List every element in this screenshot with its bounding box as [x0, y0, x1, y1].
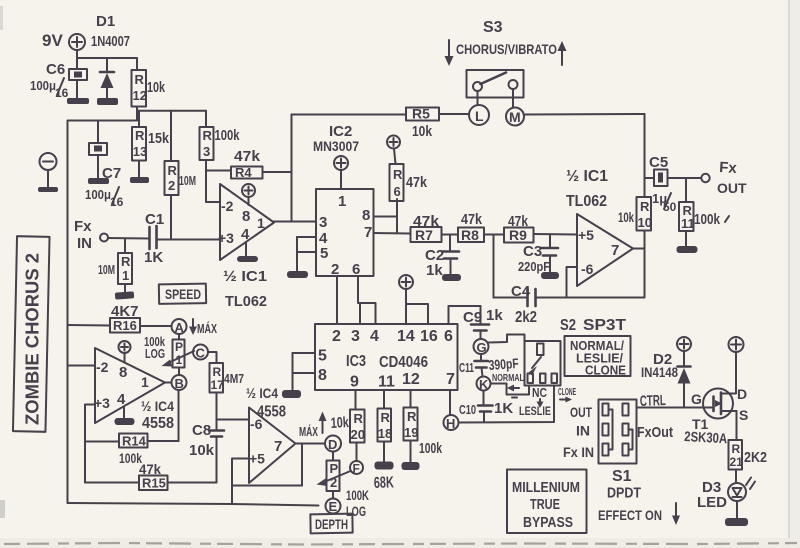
node L: [469, 91, 489, 125]
label 1/2 IC1: [223, 268, 267, 285]
svg-text:R8: R8: [461, 227, 479, 243]
wire IC3 pin6 to C9: [449, 306, 481, 324]
svg-text:OUT: OUT: [717, 180, 747, 196]
svg-text:220pF: 220pF: [518, 259, 550, 274]
svg-text:CLONE: CLONE: [585, 363, 626, 378]
svg-text:G: G: [477, 340, 487, 355]
op-amp IC4b: [249, 408, 296, 484]
svg-text:4: 4: [241, 226, 250, 243]
svg-text:10k: 10k: [330, 414, 349, 432]
svg-text:+3: +3: [218, 230, 234, 246]
svg-text:TL062: TL062: [225, 293, 267, 310]
label 100k R19: [419, 440, 442, 457]
svg-text:C4: C4: [511, 283, 531, 300]
wire IC4b feedback: [232, 444, 302, 486]
svg-text:R9: R9: [509, 227, 527, 243]
label 15k R13: [148, 130, 170, 147]
label Fx IN S1: [563, 444, 594, 460]
wire IC2 pin8: [374, 216, 398, 218]
left vertical bus: [67, 121, 69, 504]
capacitor C4: [528, 289, 536, 306]
label IC2: [329, 123, 352, 140]
svg-text:Fx: Fx: [719, 159, 738, 177]
label FxOUT: [637, 424, 673, 441]
ground C3: [541, 272, 559, 279]
power IC3: [399, 275, 428, 324]
svg-text:TL062: TL062: [566, 193, 607, 210]
svg-text:9: 9: [350, 374, 359, 391]
capacitor C1: [150, 226, 220, 249]
IC3 pins 5,8 ground bracket: [282, 353, 315, 398]
svg-text:8: 8: [362, 207, 370, 224]
wire R17 to IC4b -6: [217, 419, 250, 421]
power IC1a: [242, 184, 255, 205]
label CLONE small: [558, 387, 576, 403]
label 1N4007: [91, 33, 130, 50]
svg-text:2: 2: [331, 261, 339, 278]
svg-text:100k: 100k: [419, 440, 442, 457]
svg-text:1K: 1K: [494, 400, 513, 417]
capacitor C5: [645, 170, 702, 187]
label TL062 b: [566, 193, 607, 210]
svg-text:2k2: 2k2: [515, 309, 537, 326]
label TL062: [225, 293, 267, 310]
resistor R13: [132, 111, 147, 178]
svg-text:7: 7: [274, 438, 282, 455]
resistor R5: [406, 106, 469, 122]
wire IC4a +3: [85, 405, 95, 483]
svg-text:IN4148: IN4148: [641, 364, 678, 380]
arrow max speed: [189, 319, 197, 335]
svg-text:MÁX: MÁX: [197, 321, 217, 336]
svg-text:Fx: Fx: [74, 218, 92, 235]
svg-text:6: 6: [352, 261, 360, 278]
diode D1: [100, 72, 114, 99]
output vertical bus: [644, 114, 646, 298]
svg-text:-2: -2: [221, 198, 234, 214]
svg-text:10k: 10k: [618, 209, 634, 225]
svg-text:IN: IN: [576, 423, 590, 439]
label 1/2 IC4 b: [246, 385, 278, 401]
svg-text:4558: 4558: [142, 415, 174, 432]
ground C7: [88, 178, 109, 184]
label 10k R20: [330, 414, 349, 432]
node E: [326, 499, 341, 515]
label 100u/16 C7: [85, 187, 124, 209]
svg-text:A: A: [175, 320, 185, 335]
svg-text:1: 1: [122, 268, 129, 283]
resistor R21: [729, 440, 744, 483]
svg-text:DEPTH: DEPTH: [315, 516, 348, 532]
svg-text:100K: 100K: [346, 487, 369, 503]
svg-text:1N4007: 1N4007: [91, 33, 130, 50]
svg-text:6: 6: [444, 328, 453, 345]
svg-text:7: 7: [364, 224, 372, 241]
node M: [506, 89, 524, 126]
svg-text:B: B: [175, 376, 184, 391]
power T1 drain: [729, 337, 744, 394]
label LED: [697, 494, 727, 511]
label 100k LOG P1: [144, 334, 166, 361]
label 390pF: [488, 355, 519, 373]
svg-text:MN3007: MN3007: [313, 138, 359, 154]
label G: [691, 391, 702, 407]
svg-text:12: 12: [133, 88, 147, 103]
label MAX depth: [299, 424, 318, 439]
node F: [350, 461, 363, 476]
label 1u/50 C5: [652, 191, 677, 214]
label EFFECT ON: [598, 503, 680, 525]
svg-text:D1: D1: [96, 13, 115, 30]
svg-text:C3: C3: [523, 243, 542, 260]
svg-text:S: S: [739, 407, 748, 423]
arrow normal position: [507, 385, 519, 398]
wire IC4a out to B: [165, 382, 172, 384]
svg-text:16: 16: [420, 328, 438, 345]
label 47k R9: [508, 213, 529, 230]
label C2: [425, 247, 444, 264]
label 1k C9: [486, 307, 503, 324]
label 2SK30A: [684, 428, 728, 446]
svg-text:OUT: OUT: [570, 404, 592, 420]
svg-text:R: R: [213, 365, 222, 379]
svg-text:390pF: 390pF: [488, 355, 519, 373]
label 10k R5: [412, 123, 433, 140]
resistor R20: [350, 390, 365, 461]
node K: [477, 377, 491, 393]
svg-text:2: 2: [332, 328, 341, 345]
svg-text:NORMAL: NORMAL: [492, 373, 524, 384]
potentiometer P2: [327, 452, 340, 499]
bottom bus: [68, 503, 319, 506]
label LESLIE: [519, 404, 551, 418]
label 10k R10: [618, 209, 634, 225]
wire IC4b out to D: [296, 443, 326, 445]
svg-text:20: 20: [351, 427, 365, 442]
svg-text:FxOut: FxOut: [637, 424, 673, 441]
svg-text:16: 16: [55, 86, 69, 100]
wire IC2 pin2 to IC3 pin2: [336, 276, 338, 324]
svg-text:C1: C1: [145, 211, 164, 228]
capacitor C3: [541, 235, 558, 273]
svg-text:10k: 10k: [189, 442, 215, 459]
svg-text:R14: R14: [122, 434, 147, 449]
label Fx IN: [74, 218, 92, 252]
svg-text:1k: 1k: [426, 262, 443, 279]
label IN S1: [576, 423, 590, 439]
svg-text:IN: IN: [77, 235, 92, 252]
svg-text:-6: -6: [581, 261, 594, 277]
svg-text:6: 6: [394, 184, 401, 199]
label MAX speed: [197, 321, 217, 336]
svg-text:LESLIE: LESLIE: [519, 404, 551, 418]
svg-text:2: 2: [168, 178, 175, 193]
label 1K C1: [144, 249, 163, 266]
label 47k R8: [461, 211, 483, 228]
svg-text:1K: 1K: [144, 249, 163, 266]
label 47k R6: [406, 174, 428, 191]
label CHORUS/VIBRATO: [456, 41, 557, 57]
power IC2: [334, 156, 348, 189]
svg-text:14: 14: [397, 328, 415, 345]
resistor R19: [404, 390, 419, 463]
svg-text:LOG: LOG: [346, 503, 366, 519]
svg-text:R: R: [135, 128, 145, 143]
svg-text:P: P: [175, 340, 183, 354]
power R6: [387, 136, 400, 165]
label 100K LOG P2: [346, 487, 369, 519]
svg-text:R: R: [203, 128, 213, 143]
label 100k R3: [215, 127, 240, 144]
svg-text:100μ: 100μ: [30, 78, 56, 93]
wire battery to rail: [77, 50, 137, 58]
ground IC1a pin4: [237, 242, 258, 262]
svg-text:LOG: LOG: [145, 346, 165, 361]
svg-text:H: H: [446, 416, 455, 431]
wire IC2 pin7 to R7: [374, 232, 411, 235]
label S2 SP3T: [560, 317, 626, 334]
label DEPTH box: [310, 514, 352, 534]
label 10k C8: [189, 442, 215, 459]
resistor R14: [85, 434, 179, 449]
wire -6 feedback: [567, 267, 578, 298]
bias blob R1: [115, 291, 134, 299]
wire IC2 pin6 to IC3 pins 3,4: [358, 276, 376, 324]
svg-text:1: 1: [257, 215, 265, 231]
svg-text:15k: 15k: [148, 130, 170, 147]
label S3: [483, 19, 503, 36]
svg-text:9V: 9V: [42, 31, 63, 50]
rail upper: [137, 110, 206, 112]
ground R19: [402, 462, 420, 470]
op-amp IC4a: [94, 348, 165, 423]
svg-text:4: 4: [117, 391, 126, 408]
resistor R17: [210, 363, 225, 420]
wire IC4a -2 to bus: [68, 365, 96, 367]
svg-text:R5: R5: [412, 106, 430, 122]
power D2: [677, 337, 691, 366]
wire CTRL: [637, 407, 708, 409]
resistor R10: [637, 197, 652, 231]
svg-text:17: 17: [211, 378, 225, 392]
label CTRL: [640, 392, 667, 410]
svg-text:IC3: IC3: [346, 353, 366, 370]
svg-text:BYPASS: BYPASS: [523, 514, 573, 531]
label S: [739, 407, 748, 423]
wire B to R14: [178, 390, 180, 441]
ground R11: [677, 246, 698, 253]
label C5: [649, 154, 668, 171]
IC2 MN3007 body: [316, 189, 374, 278]
wire rail stub to D1: [106, 58, 108, 71]
arrow down S3: [445, 40, 454, 66]
svg-text:CD4046: CD4046: [379, 354, 428, 371]
label C11: [459, 360, 474, 375]
box NORMAL/LESLIE/CLONE: [565, 336, 631, 378]
resistor R9: [504, 227, 577, 243]
wire R4 node to R5 rail: [291, 115, 293, 222]
9V label: [42, 31, 63, 50]
resistor R11: [679, 178, 695, 247]
svg-text:M: M: [509, 109, 521, 125]
op-amp IC1a: [218, 184, 274, 260]
ground R13: [130, 177, 149, 183]
label IN4148: [641, 364, 678, 380]
resistor R12: [132, 58, 147, 121]
svg-text:C10: C10: [459, 402, 476, 417]
arrow up S3: [558, 41, 567, 65]
label C1: [145, 211, 164, 228]
resistor R3: [200, 111, 220, 202]
svg-text:12: 12: [402, 371, 420, 388]
svg-text:½ IC1: ½ IC1: [566, 168, 608, 185]
wire K to S2 normal pin: [491, 384, 530, 395]
svg-text:3: 3: [319, 214, 327, 231]
ground R18: [375, 462, 394, 470]
wire source to R21: [736, 411, 738, 440]
svg-text:L: L: [475, 108, 484, 124]
svg-text:S3: S3: [483, 19, 503, 36]
label T1: [692, 416, 709, 432]
input jack ground: [38, 153, 58, 192]
wire H to S2 leslie pin: [459, 386, 555, 423]
node D: [325, 436, 341, 453]
label OUT S1: [570, 404, 592, 420]
power IC4a: [119, 341, 131, 363]
node G: [474, 339, 489, 355]
resistor R1: [118, 239, 132, 294]
wire IC4b +5 loop: [232, 459, 249, 505]
svg-text:R15: R15: [142, 476, 166, 491]
resistor R16: [68, 318, 172, 333]
svg-text:8: 8: [318, 367, 327, 384]
label 10M R2: [179, 173, 196, 188]
resistor R6: [390, 164, 404, 233]
label 4558 b: [257, 404, 286, 421]
label 100k R11: [694, 211, 729, 228]
svg-text:19: 19: [404, 425, 418, 440]
svg-text:100k: 100k: [215, 127, 240, 144]
svg-text:D: D: [737, 386, 747, 402]
label C10: [459, 402, 476, 417]
switch S2: [525, 341, 561, 386]
label C4: [511, 283, 531, 300]
svg-text:+5: +5: [578, 227, 594, 243]
svg-text:C11: C11: [459, 360, 474, 375]
wire R5 rail: [292, 114, 407, 116]
op-amp IC1b: [577, 214, 633, 286]
label C6: [46, 61, 65, 78]
node A: [172, 319, 187, 335]
svg-text:DPDT: DPDT: [607, 485, 641, 502]
label D3: [702, 479, 721, 496]
label 1/2 IC4 a: [141, 398, 174, 414]
svg-text:C6: C6: [46, 61, 65, 78]
svg-text:R: R: [168, 163, 178, 178]
label 220pF C3: [518, 259, 550, 274]
svg-text:+5: +5: [249, 451, 265, 467]
svg-text:½ IC4: ½ IC4: [246, 385, 278, 401]
capacitor C2: [442, 235, 459, 276]
svg-text:1: 1: [338, 193, 346, 210]
ground D3: [725, 518, 748, 526]
svg-text:C: C: [196, 346, 206, 361]
wire R8-R9 node down: [493, 235, 495, 298]
label 4M7 R17: [224, 371, 244, 386]
svg-text:+3: +3: [94, 395, 110, 411]
wire jack to C1: [108, 237, 150, 240]
svg-text:MÁX: MÁX: [299, 424, 318, 439]
ground C2: [442, 274, 461, 281]
wire IC1a out to IC2 pin3: [274, 221, 316, 223]
svg-text:R7: R7: [415, 227, 433, 243]
svg-text:R: R: [381, 410, 391, 425]
IC2 pins 4,5 ground bracket: [287, 237, 316, 278]
svg-text:10M: 10M: [98, 262, 115, 277]
switch S1 DPDT: [599, 400, 637, 464]
LED D3: [728, 478, 755, 520]
rail lower to bus: [68, 120, 137, 122]
resistor R7: [411, 227, 459, 243]
ground C6: [67, 98, 89, 104]
label 100u/16 C6: [30, 78, 69, 100]
capacitor C7: [89, 121, 107, 180]
capacitor C8: [209, 420, 224, 483]
svg-text:11: 11: [681, 216, 695, 231]
wire IC3 pin7 to H: [449, 390, 451, 415]
svg-text:18: 18: [378, 426, 392, 441]
svg-text:E: E: [329, 499, 338, 514]
svg-text:CHORUS/VIBRATO: CHORUS/VIBRATO: [456, 41, 557, 57]
ground IC4a pin4: [115, 408, 135, 426]
svg-text:½ IC1: ½ IC1: [223, 268, 267, 285]
node H: [444, 415, 459, 431]
node B: [172, 375, 187, 391]
label 1K C10: [494, 400, 513, 417]
svg-text:R: R: [393, 167, 403, 182]
svg-text:10M: 10M: [179, 173, 196, 188]
label C3: [523, 243, 542, 260]
output jack Fx OUT: [701, 174, 709, 182]
svg-text:4M7: 4M7: [224, 371, 244, 386]
svg-text:NC: NC: [532, 385, 547, 400]
svg-text:4: 4: [370, 328, 379, 345]
label D2: [653, 351, 672, 368]
svg-text:47k: 47k: [234, 148, 261, 165]
svg-text:R: R: [121, 254, 131, 269]
svg-text:F: F: [353, 462, 360, 476]
ground D1: [97, 98, 118, 105]
arrow max depth: [319, 412, 327, 434]
label DPDT: [607, 485, 641, 502]
svg-text:LED: LED: [697, 494, 727, 511]
label MN3007: [313, 138, 359, 154]
svg-text:Fx IN: Fx IN: [563, 444, 594, 460]
svg-text:7: 7: [446, 371, 455, 388]
svg-text:50: 50: [663, 200, 677, 214]
resistor R2: [165, 111, 179, 240]
svg-text:C8: C8: [192, 422, 211, 439]
wire M to output bus: [524, 113, 645, 116]
input jack tip: [100, 234, 108, 242]
wire C4 to -6 node: [536, 297, 645, 299]
label SPEED box: [159, 284, 206, 304]
svg-text:2SK30A: 2SK30A: [684, 428, 728, 446]
svg-text:R4: R4: [235, 165, 252, 180]
svg-text:8: 8: [242, 208, 250, 225]
svg-text:68K: 68K: [374, 474, 395, 492]
label C8: [192, 422, 211, 439]
